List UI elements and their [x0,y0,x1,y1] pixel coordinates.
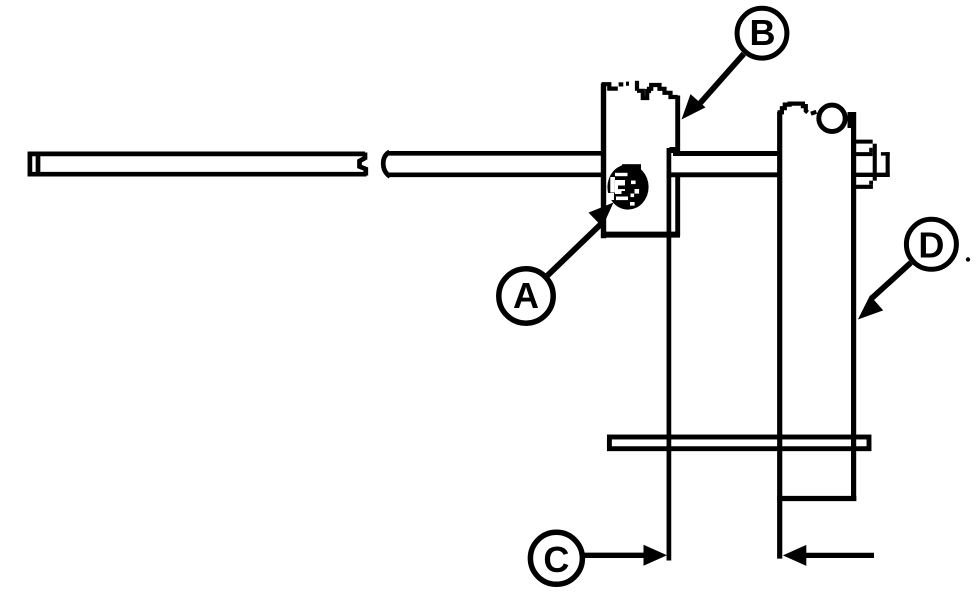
leader arrow A (points to bolt) [548,224,602,276]
leader arrow D (points to plate D) [872,263,911,298]
label circle D [906,219,956,269]
bolt A head blob [607,164,648,209]
rod right segment (break to bracket B) [383,152,604,177]
rod segment between bracket B and plate D: top line [673,151,782,156]
label circle A [499,269,553,323]
plate D right edge [851,112,856,501]
svg-text:A: A [513,275,539,316]
stray dot [966,257,970,261]
svg-text:B: B [750,12,776,53]
leader arrow B (points to bracket) [695,54,744,109]
bracket B right edge upper [675,96,680,154]
bracket B bottom edge [601,232,680,238]
plate D torn-edge circle [819,105,845,131]
rod segment between bracket B and plate D: bottom line [667,172,783,177]
label circle C [530,532,582,584]
lower cross bar (thin horizontal plate) [609,437,869,449]
plate D bottom edge [777,496,856,501]
svg-text:D: D [918,224,944,265]
dimension extension line C-left (x=669) [667,148,672,561]
svg-text:C: C [543,539,569,580]
plate D top-right corner block [848,112,857,128]
dimension arrow C right (points left) [806,553,874,558]
plate D jagged top (torn break edge) [778,104,817,114]
bracket B right edge lower [675,174,680,236]
bolt and nut on right face of plate D [856,142,890,187]
rod step at bracket right edge [670,147,678,153]
bracket B jagged top (torn break edge) [602,81,678,98]
bracket B left edge [601,84,606,239]
plate D left edge [777,112,782,559]
label circle B [737,8,787,58]
dimension arrow C left (points right) [584,553,646,558]
rod left segment outline [28,152,367,177]
